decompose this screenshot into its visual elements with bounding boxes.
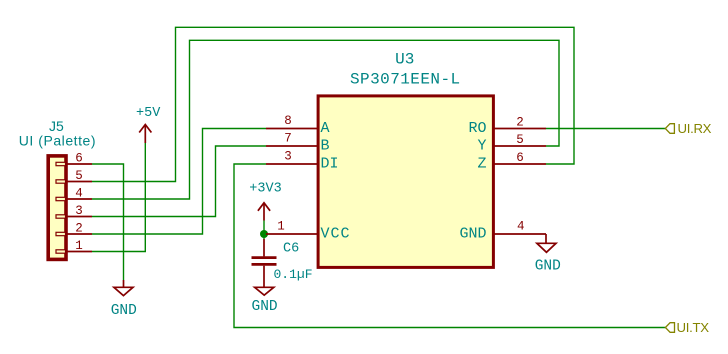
svg-text:6: 6 xyxy=(516,151,524,165)
svg-text:3: 3 xyxy=(284,150,292,164)
svg-text:3: 3 xyxy=(75,204,83,218)
svg-text:RO: RO xyxy=(468,120,486,137)
svg-text:6: 6 xyxy=(75,151,83,165)
svg-text:1: 1 xyxy=(277,220,285,234)
svg-text:VCC: VCC xyxy=(321,226,351,243)
svg-text:2: 2 xyxy=(75,221,83,235)
svg-text:DI: DI xyxy=(321,156,339,173)
svg-text:A: A xyxy=(321,120,330,137)
svg-text:1: 1 xyxy=(75,239,83,253)
svg-text:4: 4 xyxy=(75,186,83,200)
svg-text:+5V: +5V xyxy=(136,106,161,121)
svg-text:GND: GND xyxy=(535,259,561,275)
svg-text:J5: J5 xyxy=(49,118,64,134)
svg-text:+3V3: +3V3 xyxy=(249,182,281,197)
svg-text:SP3071EEN-L: SP3071EEN-L xyxy=(350,70,461,88)
svg-text:Z: Z xyxy=(477,156,486,173)
svg-text:C6: C6 xyxy=(283,241,299,256)
svg-text:UI.TX: UI.TX xyxy=(677,320,710,335)
svg-text:Y: Y xyxy=(477,138,486,155)
svg-text:5: 5 xyxy=(75,169,83,183)
svg-text:5: 5 xyxy=(516,133,524,147)
svg-text:0.1µF: 0.1µF xyxy=(274,267,313,282)
svg-text:GND: GND xyxy=(459,226,486,243)
svg-text:4: 4 xyxy=(517,220,525,234)
svg-text:UI.RX: UI.RX xyxy=(678,121,712,136)
svg-text:UI (Palette): UI (Palette) xyxy=(19,133,96,149)
svg-text:GND: GND xyxy=(252,299,278,315)
svg-text:8: 8 xyxy=(284,114,292,128)
svg-text:7: 7 xyxy=(284,132,292,146)
svg-text:U3: U3 xyxy=(395,50,414,68)
svg-text:B: B xyxy=(321,138,330,155)
svg-text:2: 2 xyxy=(516,116,524,130)
svg-text:GND: GND xyxy=(111,303,137,319)
